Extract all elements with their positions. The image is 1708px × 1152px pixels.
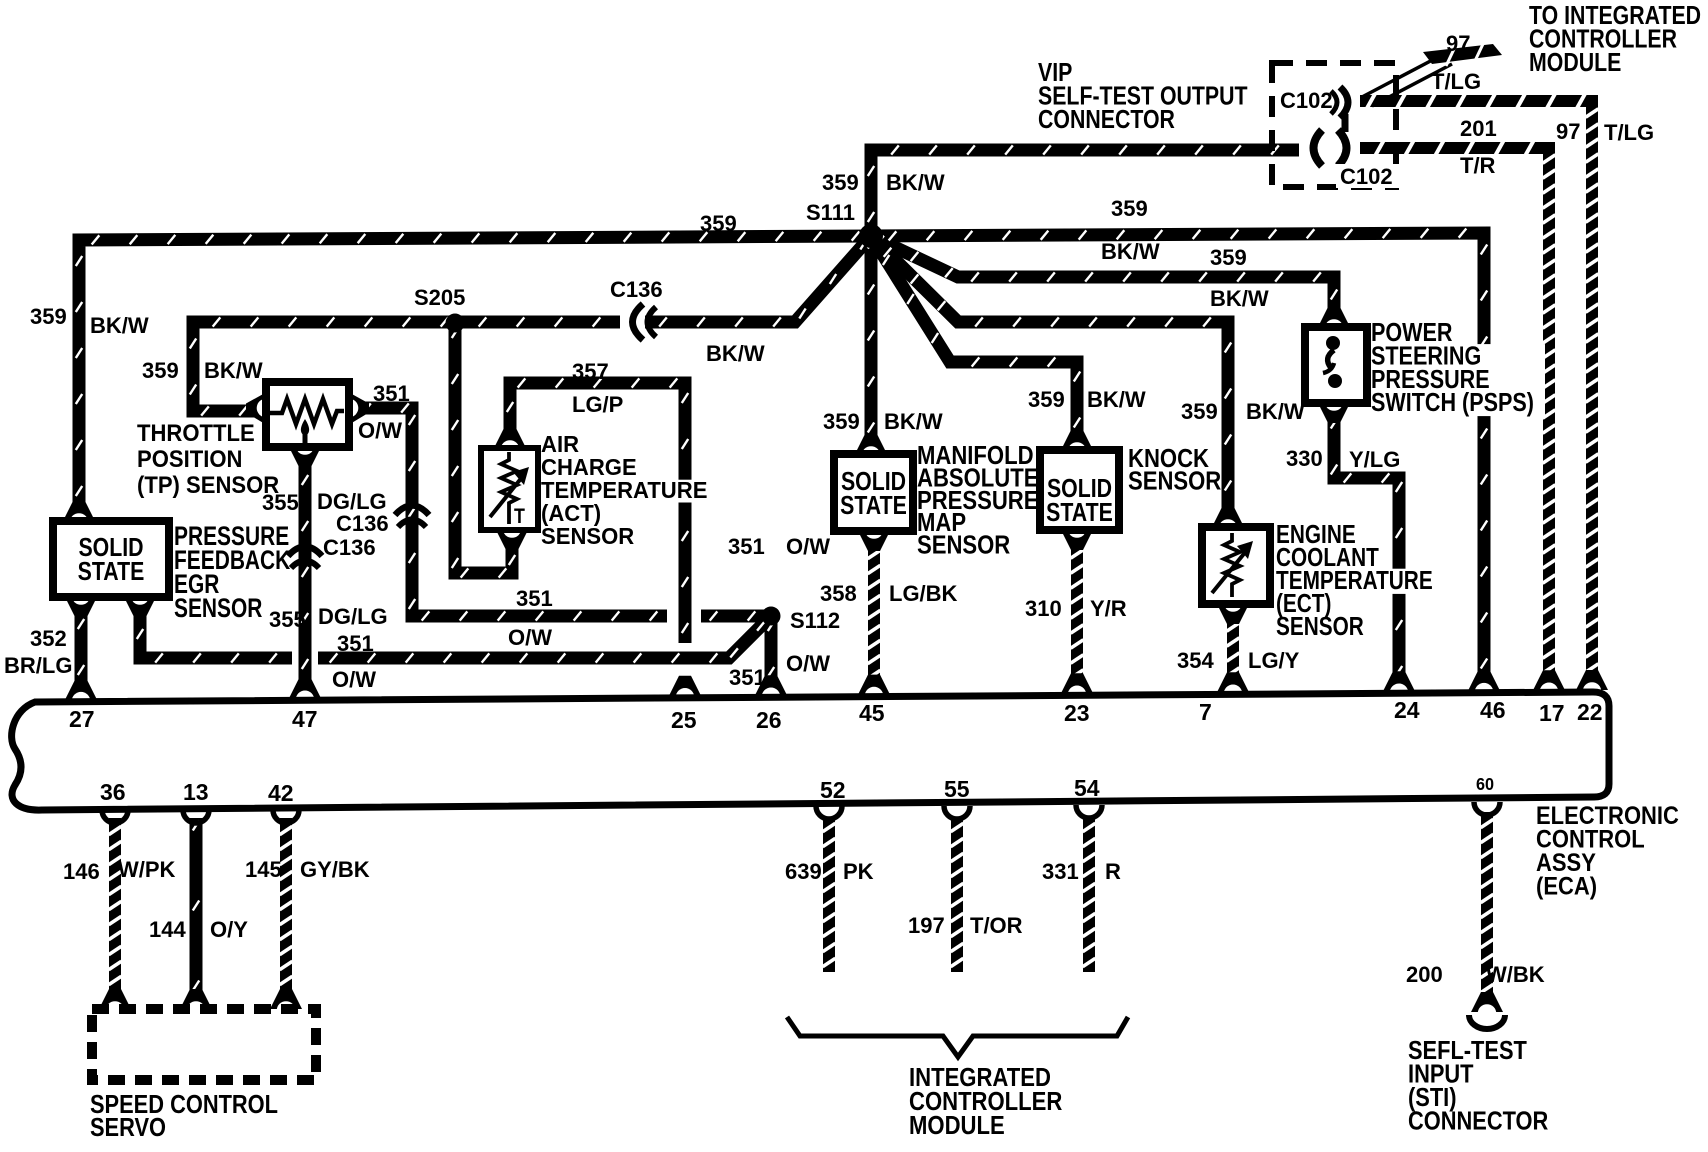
wire 359 BK/W S111 to pin 46 xyxy=(871,233,1484,680)
thin leads from C102 to 97 stub xyxy=(1362,56,1440,97)
svg-text:STATE: STATE xyxy=(1046,498,1113,528)
svg-text:146: 146 xyxy=(63,859,100,884)
wire 359 BK/W S111 to PSPS xyxy=(871,236,1334,312)
connector C136 on 359 wire xyxy=(633,304,644,340)
svg-text:144: 144 xyxy=(149,917,186,942)
svg-text:O/W: O/W xyxy=(508,625,552,650)
svg-text:359: 359 xyxy=(1111,196,1148,221)
svg-text:O/W: O/W xyxy=(332,667,376,692)
terminal into MAP sensor top xyxy=(855,434,887,454)
wire 145 GY/BK pin 42 to servo xyxy=(280,818,292,993)
terminal EGR sensor bottom left xyxy=(65,597,97,617)
terminal EGR sensor bottom right xyxy=(124,597,156,617)
terminal at pin 23 xyxy=(1061,673,1093,693)
svg-text:(ECA): (ECA) xyxy=(1536,872,1597,900)
wire 354 LG/Y ECT sensor to pin 7 xyxy=(1227,617,1239,682)
svg-text:351: 351 xyxy=(337,631,374,656)
svg-text:T/LG: T/LG xyxy=(1431,69,1481,94)
wire 359 BK/W S111 to EGR sensor xyxy=(79,236,872,512)
svg-text:7: 7 xyxy=(1199,699,1212,725)
svg-text:(TP) SENSOR: (TP) SENSOR xyxy=(137,471,280,498)
wire 359 BK/W S111 to MAP sensor xyxy=(865,236,878,435)
C102 connector dashed box xyxy=(1272,63,1396,187)
wire 144 O/Y pin 13 to servo xyxy=(190,818,203,993)
terminal PSPS bottom xyxy=(1318,403,1350,423)
svg-text:36: 36 xyxy=(100,779,126,805)
terminal TP sensor wiper xyxy=(289,447,321,467)
cup at pin 52 xyxy=(816,806,842,819)
wire 358 LG/BK MAP sensor to pin 45 xyxy=(868,547,880,682)
svg-text:STATE: STATE xyxy=(840,491,907,521)
svg-text:C136: C136 xyxy=(336,511,389,536)
svg-text:23: 23 xyxy=(1064,700,1090,726)
cup at pin 42 xyxy=(273,810,299,823)
connector C136 on 351 wire xyxy=(395,506,429,516)
wire 357 LG/P ACT to pin 25 xyxy=(510,383,685,643)
air charge temperature ACT sensor box xyxy=(481,448,538,530)
svg-text:CONNECTOR: CONNECTOR xyxy=(1408,1107,1548,1136)
svg-text:47: 47 xyxy=(292,706,318,732)
wire 359 BK/W S111 to ECT xyxy=(871,236,1228,511)
svg-text:PK: PK xyxy=(843,859,874,884)
svg-text:T: T xyxy=(514,505,525,529)
svg-text:17: 17 xyxy=(1539,700,1565,726)
wire 359 BK/W S111 to C136 xyxy=(645,236,871,322)
svg-text:C136: C136 xyxy=(323,535,376,560)
svg-text:DG/LG: DG/LG xyxy=(318,604,388,629)
svg-text:O/Y: O/Y xyxy=(210,917,248,942)
terminal at pin 26 xyxy=(755,675,787,695)
PSPS switch symbol xyxy=(1326,336,1340,350)
svg-text:SWITCH (PSPS): SWITCH (PSPS) xyxy=(1371,388,1534,417)
svg-text:MODULE: MODULE xyxy=(909,1111,1005,1140)
terminal into TP sensor left xyxy=(246,393,265,424)
cup at pin 55 xyxy=(944,806,970,819)
solid state knock sensor box xyxy=(1040,450,1119,530)
svg-text:BR/LG: BR/LG xyxy=(4,653,72,678)
svg-text:639: 639 xyxy=(785,859,822,884)
svg-text:330: 330 xyxy=(1286,446,1323,471)
svg-text:POSITION: POSITION xyxy=(137,445,242,472)
terminal MAP sensor bottom xyxy=(858,531,890,551)
svg-text:BK/W: BK/W xyxy=(1210,286,1269,311)
speed control servo dashed box xyxy=(92,1009,316,1080)
svg-text:C136: C136 xyxy=(610,277,663,302)
wire 352 BR/LG EGR sensor to pin 27 xyxy=(75,610,88,684)
Electronic Control Assy (ECA) bar xyxy=(12,692,1609,810)
cup at pin 54 xyxy=(1076,805,1102,818)
svg-text:SENSOR: SENSOR xyxy=(1276,612,1364,641)
junction S112 xyxy=(762,607,781,626)
svg-text:O/W: O/W xyxy=(358,418,402,443)
svg-text:S111: S111 xyxy=(806,200,855,225)
svg-text:T/R: T/R xyxy=(1460,153,1496,178)
terminal into ACT sensor top xyxy=(494,428,526,448)
wire 351 O/W S112 to pin 26 xyxy=(765,616,778,682)
svg-text:22: 22 xyxy=(1577,699,1603,725)
svg-text:SENSOR: SENSOR xyxy=(917,531,1010,560)
ECT thermistor symbol xyxy=(1224,533,1240,597)
wire 97 T/LG stub to integrated controller module xyxy=(1423,44,1502,64)
svg-text:52: 52 xyxy=(820,777,846,803)
svg-text:SENSOR: SENSOR xyxy=(174,594,262,624)
svg-text:331: 331 xyxy=(1042,859,1079,884)
svg-text:LG/Y: LG/Y xyxy=(1248,648,1300,673)
svg-text:W/PK: W/PK xyxy=(118,857,176,882)
connector C102 terminals xyxy=(1340,87,1348,118)
terminal at pin 46 xyxy=(1468,671,1500,691)
terminal at pin 7 xyxy=(1217,672,1249,692)
wire 351 O/W TP sensor to S112 xyxy=(360,408,667,616)
terminal at pin 45 xyxy=(858,675,890,695)
junction S205 xyxy=(446,314,465,333)
svg-text:310: 310 xyxy=(1025,596,1062,621)
throttle position TP sensor box xyxy=(266,382,349,447)
wire 330 Y/LG PSPS to pin 24 xyxy=(1334,415,1399,680)
svg-text:200: 200 xyxy=(1406,962,1443,987)
wire 359 BK/W S205 to ACT sensor xyxy=(455,323,512,573)
wire 201 T/R C102 to pin 17 xyxy=(1360,148,1549,680)
svg-text:R: R xyxy=(1105,859,1121,884)
svg-text:S112: S112 xyxy=(790,608,840,633)
svg-text:97: 97 xyxy=(1556,119,1580,144)
svg-text:LG/BK: LG/BK xyxy=(889,581,958,606)
svg-text:359: 359 xyxy=(1028,387,1065,412)
wire 351 O/W segment into S112 xyxy=(701,610,764,623)
svg-text:359: 359 xyxy=(1210,245,1247,270)
terminal at pin 27 xyxy=(65,680,97,700)
svg-text:359: 359 xyxy=(822,170,859,195)
svg-text:BK/W: BK/W xyxy=(1101,239,1160,264)
svg-text:46: 46 xyxy=(1480,697,1506,723)
connector C136 on 355 wire xyxy=(288,547,322,557)
wire 331 R pin 54 xyxy=(1083,818,1095,972)
cup at pin 60 xyxy=(1474,802,1500,815)
terminal at pin 22 xyxy=(1576,670,1608,690)
svg-text:351: 351 xyxy=(373,381,410,406)
svg-text:54: 54 xyxy=(1074,775,1100,801)
svg-text:BK/W: BK/W xyxy=(204,358,263,383)
svg-text:354: 354 xyxy=(1177,648,1214,673)
terminal into EGR sensor top xyxy=(63,501,95,521)
svg-text:T/OR: T/OR xyxy=(970,913,1023,938)
svg-text:13: 13 xyxy=(183,779,209,805)
solid state EGR sensor box xyxy=(53,521,169,597)
wire 310 Y/R knock sensor to pin 23 xyxy=(1071,546,1083,682)
svg-text:27: 27 xyxy=(69,706,95,732)
wire 351 O/W EGR sensor to S112 left part xyxy=(140,610,292,658)
svg-text:201: 201 xyxy=(1460,116,1497,141)
wire 359 BK/W C136/S205 to TP sensor xyxy=(193,322,620,411)
svg-text:352: 352 xyxy=(30,626,67,651)
wire 97 T/LG C102 to pin 22 xyxy=(1360,101,1592,680)
brace integrated controller module xyxy=(787,1017,1128,1057)
terminal into ACT sensor bottom xyxy=(496,530,528,550)
cup at pin 13 xyxy=(183,810,209,823)
terminal knock sensor bottom xyxy=(1061,530,1093,550)
terminal TP sensor right xyxy=(350,393,369,424)
terminal into PSPS top xyxy=(1318,307,1350,327)
svg-text:359: 359 xyxy=(30,304,67,329)
svg-text:357: 357 xyxy=(572,359,609,384)
svg-text:SENSOR: SENSOR xyxy=(1128,467,1221,496)
terminal at pin 47 xyxy=(289,678,321,698)
svg-text:359: 359 xyxy=(823,409,860,434)
wire 355 DG/LG TP wiper to pin 47 xyxy=(299,460,312,684)
svg-text:Y/R: Y/R xyxy=(1090,596,1127,621)
terminal at pin 24 xyxy=(1383,671,1415,691)
junction S111 xyxy=(859,224,883,248)
power steering pressure switch PSPS box xyxy=(1305,327,1367,403)
svg-text:55: 55 xyxy=(944,776,970,802)
svg-text:STATE: STATE xyxy=(78,557,145,587)
svg-text:197: 197 xyxy=(908,913,945,938)
svg-text:SERVO: SERVO xyxy=(90,1113,166,1142)
svg-text:C102: C102 xyxy=(1340,164,1393,189)
svg-text:C102: C102 xyxy=(1280,88,1333,113)
wire 359 BK/W S111 to C102 xyxy=(871,150,1299,238)
svg-text:SENSOR: SENSOR xyxy=(541,522,634,549)
TP sensor potentiometer symbol xyxy=(270,399,344,424)
terminal ECT sensor bottom xyxy=(1217,604,1249,624)
solid state MAP sensor box xyxy=(834,454,913,531)
svg-text:26: 26 xyxy=(756,707,782,733)
svg-text:BK/W: BK/W xyxy=(884,409,943,434)
svg-text:42: 42 xyxy=(268,780,294,806)
STI connector mate arc xyxy=(1469,1015,1505,1029)
ACT thermistor symbol xyxy=(501,452,517,524)
wire 200 W/BK pin 60 to STI xyxy=(1481,812,1493,1000)
svg-text:359: 359 xyxy=(142,358,179,383)
svg-text:BK/W: BK/W xyxy=(886,170,945,195)
terminal at pin 17 xyxy=(1533,670,1565,690)
svg-text:45: 45 xyxy=(859,700,885,726)
svg-text:359: 359 xyxy=(1181,399,1218,424)
svg-text:351: 351 xyxy=(728,534,765,559)
svg-text:CONNECTOR: CONNECTOR xyxy=(1038,105,1175,135)
svg-text:97: 97 xyxy=(1446,31,1470,56)
svg-text:355: 355 xyxy=(269,607,306,632)
svg-text:BK/W: BK/W xyxy=(706,341,765,366)
terminal into knock sensor top xyxy=(1061,430,1093,450)
svg-text:O/W: O/W xyxy=(786,651,830,676)
svg-text:T/LG: T/LG xyxy=(1604,120,1654,145)
svg-text:145: 145 xyxy=(245,857,282,882)
svg-text:BK/W: BK/W xyxy=(1087,387,1146,412)
wire 639 PK pin 52 xyxy=(823,818,835,972)
svg-text:MODULE: MODULE xyxy=(1529,48,1621,78)
svg-text:GY/BK: GY/BK xyxy=(300,857,370,882)
svg-text:359: 359 xyxy=(700,211,737,236)
svg-text:351: 351 xyxy=(729,665,766,690)
svg-text:60: 60 xyxy=(1476,774,1494,794)
terminal into servo (pin 13 wire) xyxy=(180,989,212,1009)
terminal at pin 25 xyxy=(669,676,701,696)
terminal into servo (pin 36 wire) xyxy=(99,989,131,1009)
svg-text:BK/W: BK/W xyxy=(1246,399,1305,424)
svg-text:W/BK: W/BK xyxy=(1486,962,1545,987)
svg-text:25: 25 xyxy=(671,707,697,733)
svg-text:24: 24 xyxy=(1394,697,1420,723)
svg-text:BK/W: BK/W xyxy=(90,313,149,338)
svg-text:THROTTLE: THROTTLE xyxy=(137,419,255,446)
wire 197 T/OR pin 55 xyxy=(951,818,963,972)
svg-text:351: 351 xyxy=(516,586,553,611)
wire 359 BK/W S111 to knock sensor xyxy=(871,236,1077,437)
terminal into ECT sensor top xyxy=(1212,507,1244,527)
wire 351 O/W EGR sensor to S112 right part xyxy=(318,621,766,658)
cup at pin 36 xyxy=(102,810,128,823)
svg-text:LG/P: LG/P xyxy=(572,392,623,417)
svg-text:O/W: O/W xyxy=(786,534,830,559)
svg-text:S205: S205 xyxy=(414,285,465,310)
svg-text:Y/LG: Y/LG xyxy=(1349,447,1400,472)
terminal into servo (pin 42 wire) xyxy=(270,989,302,1009)
wire 146 W/PK pin 36 to servo xyxy=(109,818,121,993)
terminal STI connector xyxy=(1471,992,1503,1012)
svg-text:358: 358 xyxy=(820,581,857,606)
engine coolant temperature ECT sensor box xyxy=(1202,527,1270,604)
